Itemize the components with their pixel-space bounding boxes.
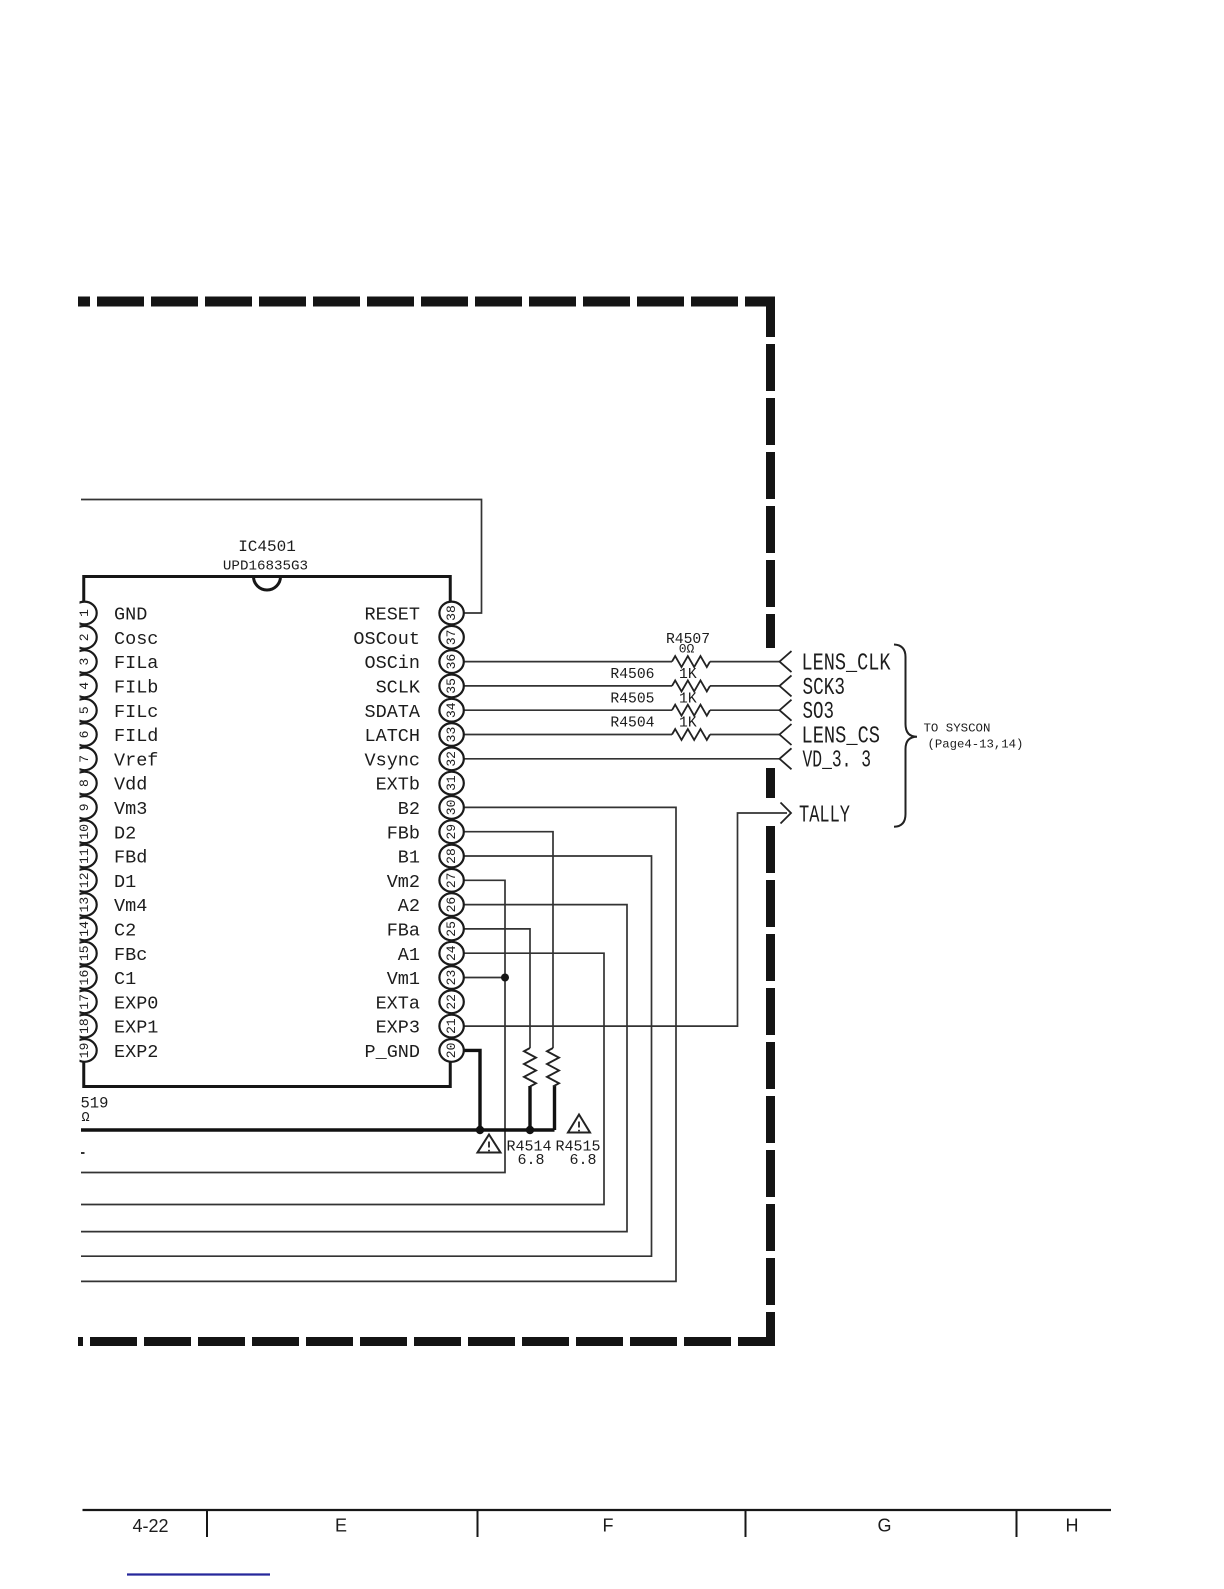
svg-text:LENS_CLK: LENS_CLK [802,651,891,678]
svg-text:26: 26 [444,897,459,913]
svg-text:6.8: 6.8 [570,1152,597,1169]
svg-text:C2: C2 [114,921,136,942]
op-amp / IC U IC4501 UPD16835G3 body [84,577,451,1087]
svg-text:R4506: R4506 [610,667,654,683]
pin 8 (Vdd) [72,772,147,796]
wire net A2 [81,905,627,1232]
pin 28 (B1) [398,845,464,869]
svg-text:1K: 1K [679,691,697,707]
svg-text:IC4501: IC4501 [238,538,296,556]
svg-text:30: 30 [444,800,459,816]
svg-text:37: 37 [444,629,459,645]
svg-text:35: 35 [444,678,459,694]
wire net A1 [81,953,604,1204]
wire OSCin to R4507 [464,661,672,663]
pin 10 (D2) [72,820,136,844]
svg-text:FILd: FILd [114,726,158,747]
svg-text:E: E [335,1516,347,1536]
resistor R4506 [672,680,710,691]
node LENS_CLK arrow [780,651,792,672]
resistor R4504 [672,729,710,740]
svg-text:P_GND: P_GND [364,1042,420,1063]
pin 16 (C1) [72,966,136,990]
footer rule [83,1509,1112,1511]
wire R4504 to LENS_CS arrow [710,734,780,736]
svg-text:20: 20 [444,1043,459,1059]
footer tick 3 [745,1510,747,1537]
pin 25 (FBa) [387,918,464,942]
wire R4507 to LENS_CLK arrow [710,661,780,663]
svg-text:Vref: Vref [114,750,158,771]
wire SCLK to R4506 [464,685,672,687]
pin 37 (OSCout) [353,626,463,650]
svg-text:1K: 1K [679,716,697,732]
wire net FBb to R4515 [464,832,553,1048]
svg-text:EXTb: EXTb [376,775,420,796]
svg-text:VD_3. 3: VD_3. 3 [803,748,872,775]
wire SDATA to R4505 [464,709,672,711]
resistor R4515 [547,1048,559,1087]
pin 26 (A2) [398,893,464,917]
svg-text:31: 31 [444,775,459,791]
node SCK3 arrow [780,675,792,696]
svg-text:4-22: 4-22 [132,1516,168,1536]
node VD_3.3 arrow [780,748,792,769]
svg-text:RESET: RESET [364,605,420,626]
wire R4505 to SO3 arrow [710,709,780,711]
svg-text:R4505: R4505 [610,691,654,707]
svg-text:EXP1: EXP1 [114,1018,158,1039]
blue underline mark [127,1573,270,1575]
svg-text:FILc: FILc [114,702,158,723]
pin 2 (Cosc) [72,626,158,650]
svg-text:FILa: FILa [114,653,158,674]
svg-text:1K: 1K [679,667,697,683]
boundary dashed top [78,297,775,307]
svg-text:Vm2: Vm2 [387,872,420,893]
junction dot P_GND at x480 [476,1126,484,1134]
pin 33 (LATCH) [364,723,463,747]
pin 23 (Vm1) [387,966,464,990]
wire net EXP3 to TALLY [464,813,787,1026]
svg-text:21: 21 [444,1018,459,1034]
svg-text:Vm1: Vm1 [387,969,420,990]
svg-text:B2: B2 [398,799,420,820]
wire LATCH to R4504 [464,734,672,736]
brace to syscon [894,645,917,827]
pin 13 (Vm4) [72,893,147,917]
svg-text:519: 519 [81,1095,109,1113]
svg-text:Ω: Ω [82,1111,90,1126]
junction dot R4514 bottom [526,1126,534,1134]
wire Vsync to VD_3.3 arrow [464,758,780,760]
pin 27 (Vm2) [387,869,464,893]
pin 22 (EXTa) [376,990,464,1014]
svg-text:EXP2: EXP2 [114,1042,158,1063]
footer tick 4 [1016,1510,1018,1537]
pin 34 (SDATA) [364,699,463,723]
pin 14 (C2) [72,918,136,942]
boundary dashed bottom [78,1337,770,1346]
svg-text:38: 38 [444,605,459,621]
resistor R4505 [672,705,710,716]
svg-text:EXTa: EXTa [376,993,420,1014]
svg-text:33: 33 [444,727,459,743]
pin 15 (FBc) [72,942,147,966]
svg-text:Vsync: Vsync [364,750,420,771]
svg-text:EXP3: EXP3 [376,1018,420,1039]
svg-text:FBc: FBc [114,945,147,966]
svg-text:FBd: FBd [114,848,147,869]
svg-text:D1: D1 [114,872,136,893]
pin 31 (EXTb) [376,772,464,796]
page cut mask left [60,590,80,1070]
pin 5 (FILc) [72,699,158,723]
svg-text:SCK3: SCK3 [803,675,846,702]
node SO3 arrow [780,700,792,721]
svg-text:LATCH: LATCH [364,726,420,747]
pin 36 (OSCin) [364,650,463,674]
wire R4506 to SCK3 arrow [710,685,780,687]
svg-text:25: 25 [444,921,459,937]
svg-text:FBa: FBa [387,921,420,942]
IC notch [254,577,281,591]
svg-text:OSCout: OSCout [353,629,420,650]
pin 24 (A1) [398,942,464,966]
svg-text:C1: C1 [114,969,136,990]
svg-text:Cosc: Cosc [114,629,158,650]
wire stub left edge [81,1152,85,1154]
pin 9 (Vm3) [72,796,147,820]
svg-text:SCLK: SCLK [376,678,421,699]
svg-text:Vm3: Vm3 [114,799,147,820]
pin 4 (FILb) [72,675,158,699]
svg-text:(Page4-13,14): (Page4-13,14) [928,738,1024,752]
pin 17 (EXP0) [72,990,158,1014]
pin 11 (FBd) [72,845,147,869]
svg-text:32: 32 [444,751,459,767]
pin 20 (P_GND) [364,1039,463,1063]
warning triangle 2 [568,1115,590,1133]
wire net P_GND (thick) [81,1050,555,1130]
svg-text:28: 28 [444,848,459,864]
svg-text:FBb: FBb [387,823,420,844]
svg-text:23: 23 [444,970,459,986]
pin 7 (Vref) [72,747,158,771]
svg-text:34: 34 [444,702,459,718]
warning triangle 1 [478,1135,501,1153]
svg-text:LENS_CS: LENS_CS [802,723,881,750]
svg-text:0Ω: 0Ω [679,642,695,657]
node TALLY arrow [781,803,792,824]
wire net B1 [81,856,652,1256]
footer tick 2 [477,1510,479,1537]
pin 38 (RESET) [364,602,463,626]
svg-text:27: 27 [444,872,459,888]
svg-text:22: 22 [444,994,459,1010]
pin 35 (SCLK) [376,675,464,699]
pin 6 (FILd) [72,723,158,747]
svg-text:GND: GND [114,605,147,626]
pin 29 (FBb) [387,820,464,844]
node LENS_CS arrow [780,724,792,745]
pin 12 (D1) [72,869,136,893]
junction dot Vm1/Vm2 [501,974,509,982]
svg-text:SDATA: SDATA [364,702,420,723]
svg-text:B1: B1 [398,848,420,869]
resistor R4507 [672,656,710,667]
pin 3 (FILa) [72,650,158,674]
pin 18 (EXP1) [72,1015,158,1039]
svg-text:UPD16835G3: UPD16835G3 [223,559,308,575]
boundary dashed right [766,297,775,1347]
svg-text:F: F [603,1516,614,1536]
pin 30 (B2) [398,796,464,820]
wire net B2 [81,807,676,1281]
svg-text:EXP0: EXP0 [114,993,158,1014]
svg-text:36: 36 [444,654,459,670]
pin 32 (Vsync) [364,747,463,771]
svg-text:H: H [1066,1516,1079,1536]
svg-text:FILb: FILb [114,678,158,699]
svg-text:SO3: SO3 [803,699,835,726]
svg-text:TALLY: TALLY [799,802,850,829]
svg-text:Vdd: Vdd [114,775,147,796]
footer tick 1 [206,1510,208,1537]
pin 1 (GND) [72,602,147,626]
svg-text:G: G [877,1516,891,1536]
svg-text:6.8: 6.8 [518,1152,545,1169]
wire net RESET [81,500,482,614]
svg-text:Vm4: Vm4 [114,896,147,917]
svg-text:TO SYSCON: TO SYSCON [924,722,991,736]
wire net Vm2 [81,880,505,1172]
pin 21 (EXP3) [376,1015,464,1039]
svg-text:24: 24 [444,945,459,961]
wire net Vm1 [464,977,505,979]
pin 19 (EXP2) [72,1039,158,1063]
svg-text:A1: A1 [398,945,420,966]
svg-text:29: 29 [444,824,459,840]
svg-text:R4504: R4504 [610,716,654,732]
svg-text:A2: A2 [398,896,420,917]
resistor R4514 [524,1048,536,1087]
svg-text:D2: D2 [114,823,136,844]
wire net FBa to R4514 [464,929,530,1048]
svg-text:OSCin: OSCin [364,653,420,674]
